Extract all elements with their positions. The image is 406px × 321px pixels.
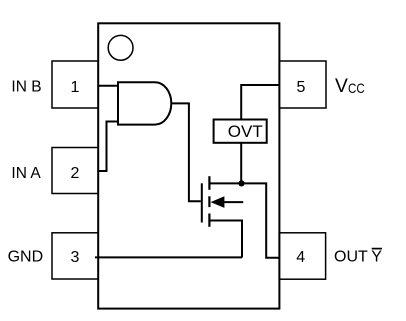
svg-text:GND: GND bbox=[8, 248, 44, 265]
transistor Q1 source stub bbox=[209, 221, 242, 258]
pin 2 box bbox=[52, 148, 98, 194]
transistor Q1 body arrowhead bbox=[211, 196, 225, 208]
transistor Q1 channel segment (drain) bbox=[208, 176, 210, 190]
pin 3 box bbox=[52, 233, 98, 279]
svg-text:Y: Y bbox=[371, 248, 382, 265]
svg-text:IN B: IN B bbox=[11, 79, 41, 96]
svg-text:1: 1 bbox=[71, 79, 80, 96]
wire pin5 to OVT bbox=[241, 85, 279, 120]
transistor Q1 channel segment (body) bbox=[208, 196, 210, 207]
transistor Q1 drain stub bbox=[209, 182, 241, 184]
transistor Q1 body arrow line bbox=[222, 201, 243, 203]
pin 4 box bbox=[279, 233, 325, 279]
svg-text:V: V bbox=[335, 76, 348, 97]
OVT block bbox=[214, 120, 267, 143]
pin 5 box bbox=[279, 61, 326, 108]
svg-text:OVT: OVT bbox=[228, 122, 263, 141]
wire pin2 to AND input B bbox=[98, 122, 118, 172]
svg-text:5: 5 bbox=[297, 79, 306, 96]
AND gate bbox=[118, 82, 171, 124]
transistor Q1 gate bar bbox=[201, 183, 203, 222]
pin-1 indicator circle bbox=[108, 35, 133, 60]
transistor Q1 channel segment (source) bbox=[208, 214, 210, 227]
overline over Y bbox=[372, 248, 382, 250]
svg-text:CC: CC bbox=[348, 80, 365, 96]
svg-text:2: 2 bbox=[71, 165, 80, 182]
wire drain node to pin 4 bbox=[242, 183, 280, 257]
svg-text:4: 4 bbox=[296, 249, 305, 266]
IC package outline bbox=[98, 23, 279, 308]
GND rail from pin 3 to source wire bbox=[95, 256, 242, 258]
svg-text:IN A: IN A bbox=[11, 165, 41, 182]
svg-text:3: 3 bbox=[71, 249, 80, 266]
wire OVT to drain node bbox=[240, 143, 242, 184]
pin 1 box bbox=[52, 61, 98, 108]
svg-text:OUT: OUT bbox=[334, 248, 368, 265]
wire pin1 to AND input A bbox=[98, 85, 118, 87]
wire AND output to MOSFET gate bbox=[171, 103, 201, 201]
junction dot at drain node bbox=[238, 180, 244, 186]
